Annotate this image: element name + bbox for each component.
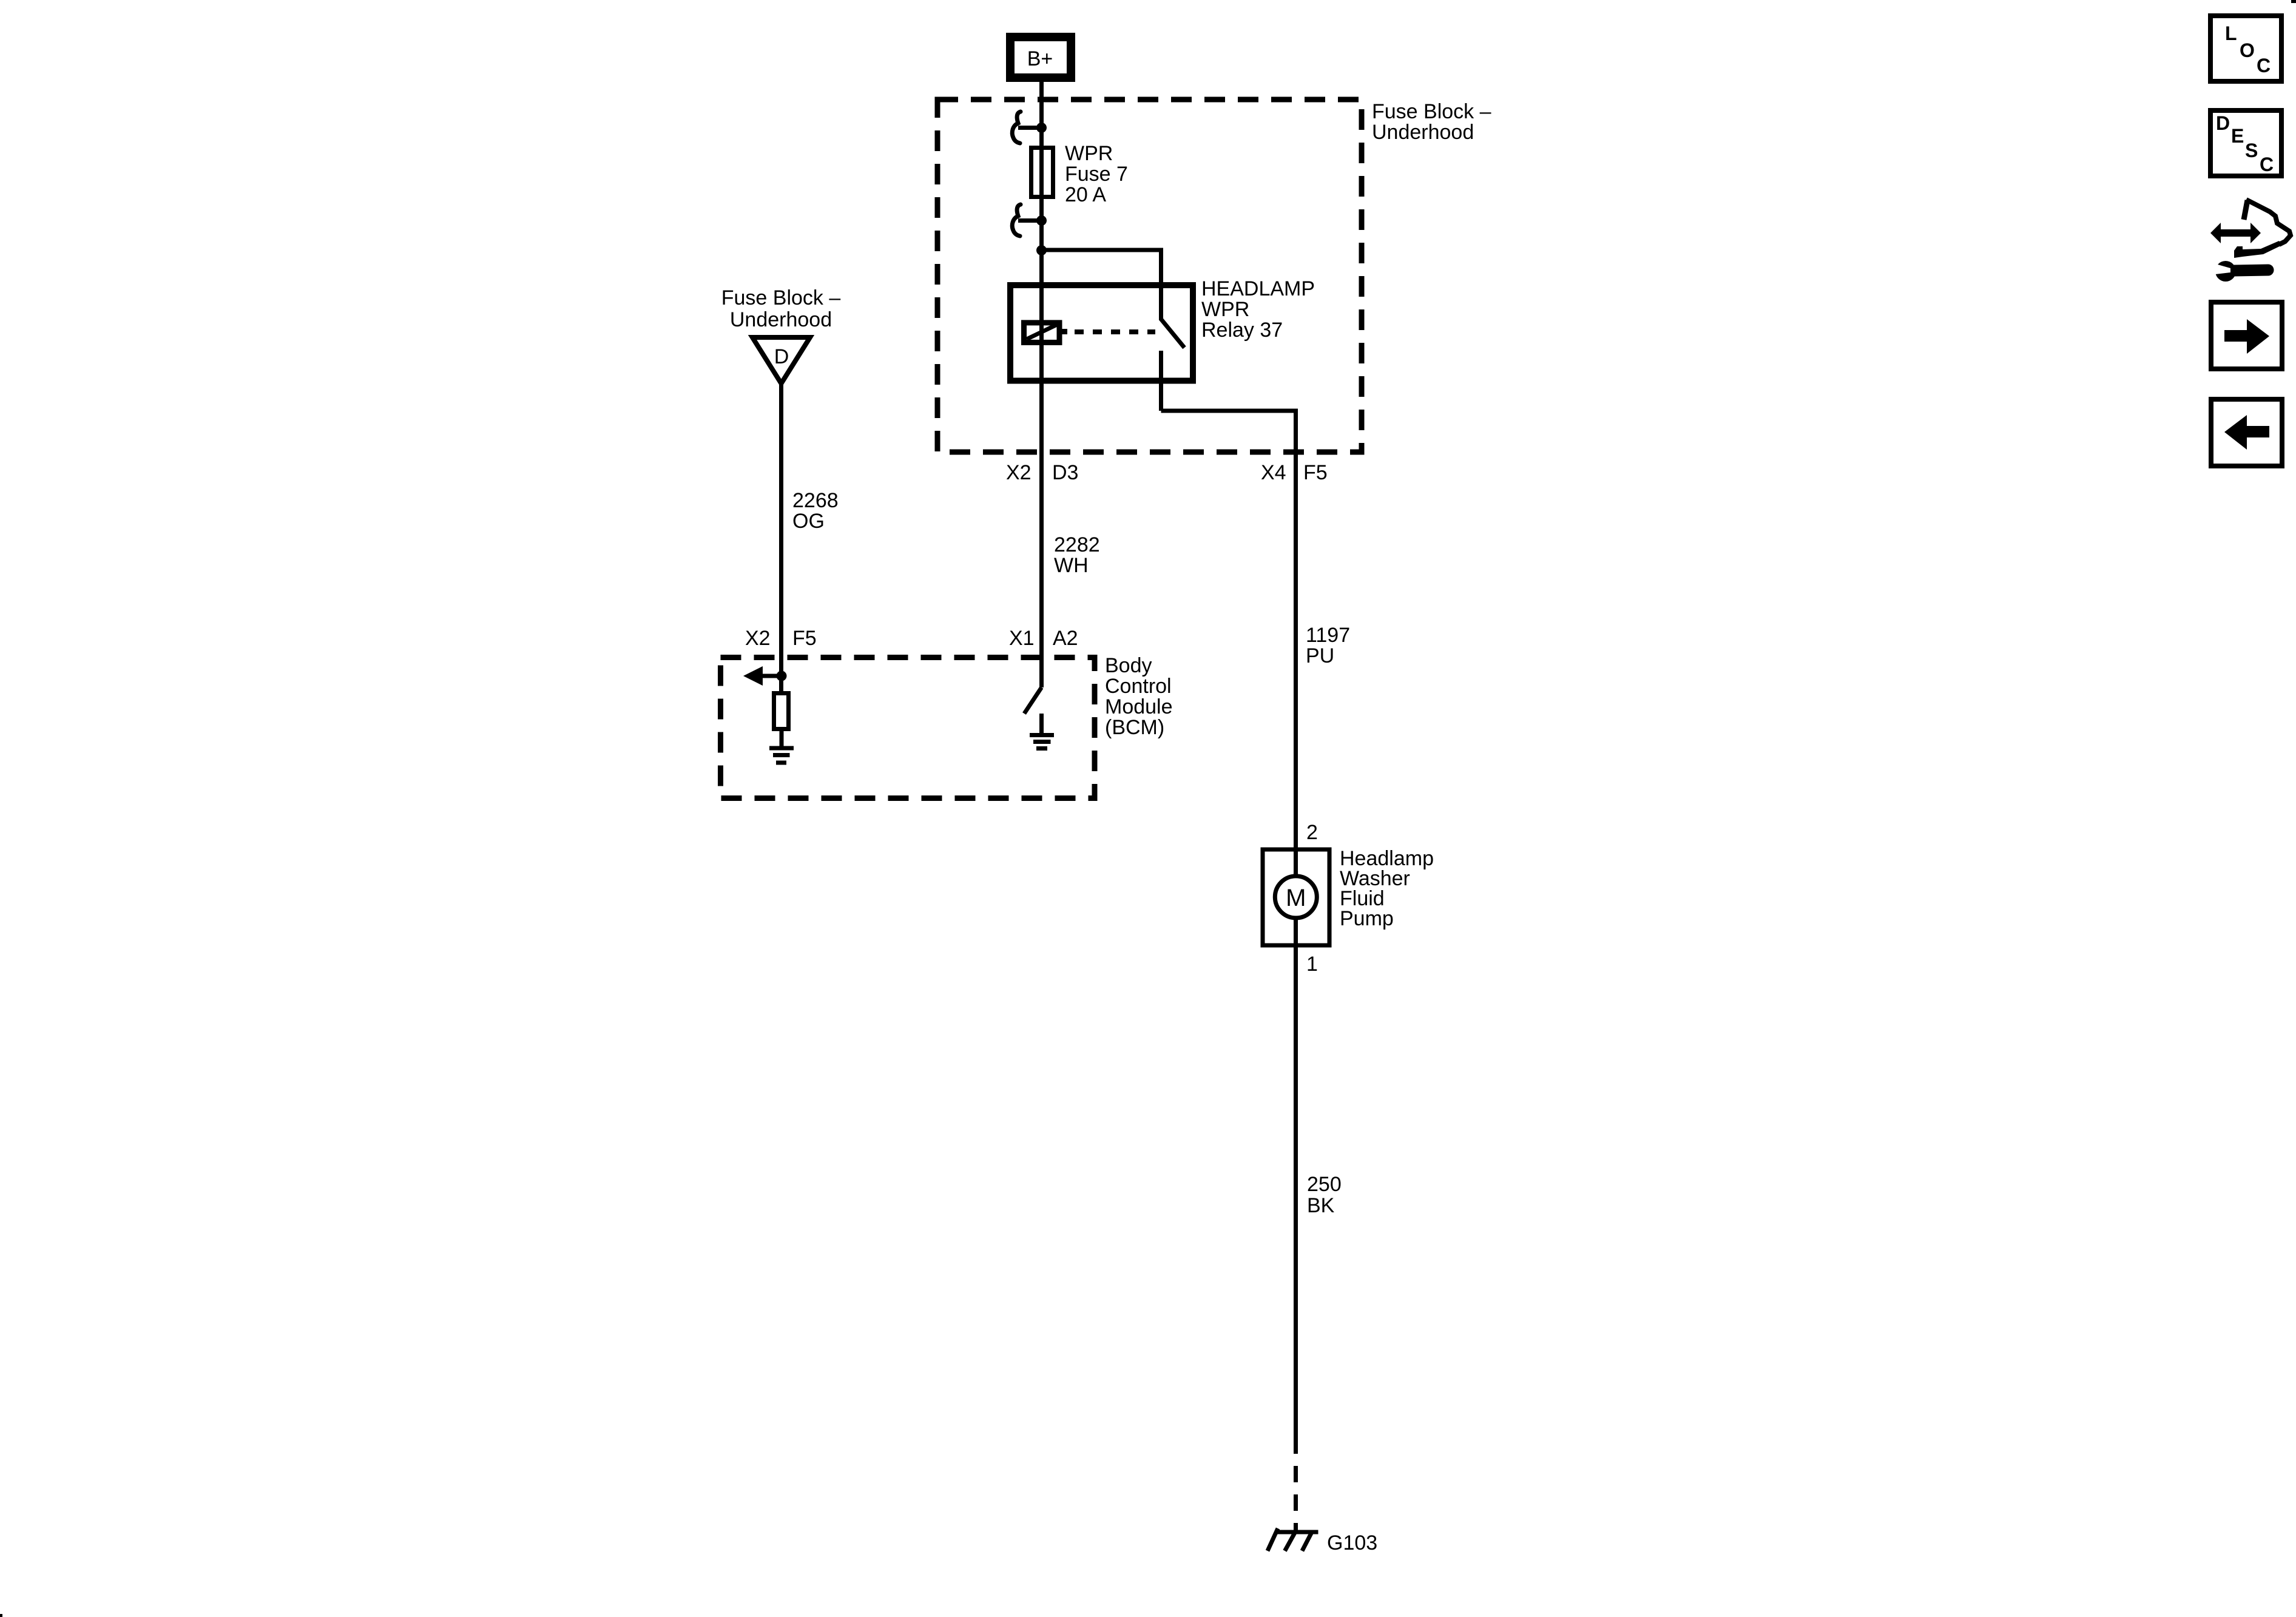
fuse block underhood label right <box>1372 100 1491 144</box>
fuse clip top <box>1012 112 1047 143</box>
relay switch blade <box>1161 319 1185 348</box>
relay actuation dashed line <box>1075 329 1155 334</box>
svg-text:(BCM): (BCM) <box>1105 716 1164 739</box>
svg-text:S: S <box>2245 140 2258 161</box>
ground BCM left <box>769 748 794 763</box>
wire relay output to X4 F5 <box>1161 411 1296 452</box>
pin 2 label <box>1306 821 1318 844</box>
wire 250 BK <box>1294 945 1298 1454</box>
svg-text:2282: 2282 <box>1054 533 1100 556</box>
svg-text:Pump: Pump <box>1340 907 1394 930</box>
svg-text:1197: 1197 <box>1306 624 1350 647</box>
signal arrow left inside BCM <box>743 666 783 686</box>
ground BCM right <box>1030 714 1054 749</box>
icon service info double arrow <box>2210 223 2261 243</box>
BCM label Body Control Module <box>1105 654 1173 739</box>
pump label Headlamp Washer Fluid Pump <box>1340 847 1434 930</box>
svg-text:WH: WH <box>1054 554 1089 577</box>
svg-text:250: 250 <box>1307 1173 1342 1196</box>
svg-text:OG: OG <box>792 510 825 533</box>
svg-text:F5: F5 <box>792 627 817 650</box>
connector label X1 A2 <box>1009 627 1078 650</box>
fuse block underhood label left <box>721 286 841 331</box>
svg-text:BK: BK <box>1307 1194 1335 1217</box>
svg-text:X4: X4 <box>1261 461 1286 484</box>
fuse block underhood dashed box <box>937 100 1362 452</box>
svg-text:WPR: WPR <box>1065 142 1113 165</box>
icon LOC button <box>2210 16 2281 81</box>
motor M headlamp washer fluid pump <box>1275 849 1317 945</box>
icon back arrow button <box>2211 399 2282 466</box>
svg-text:F5: F5 <box>1303 461 1328 484</box>
pin 1 label <box>1306 953 1318 976</box>
wire 2282 WH <box>1039 452 1044 687</box>
ground G103 symbol <box>1268 1528 1319 1551</box>
svg-text:Fuse 7: Fuse 7 <box>1065 163 1128 186</box>
grid reference triangle D <box>752 337 810 383</box>
svg-text:Fuse Block –: Fuse Block – <box>1372 100 1491 123</box>
connector label X2 F5 <box>745 627 817 650</box>
svg-text:Underhood: Underhood <box>1372 121 1474 144</box>
BCM dashed box <box>721 658 1095 798</box>
pump box <box>1263 849 1329 945</box>
wire resistor to ground <box>780 729 784 748</box>
icon DESC button <box>2210 110 2281 176</box>
wire 1197 PU <box>1294 452 1298 849</box>
wire junction to relay switch contact <box>1042 250 1161 320</box>
svg-text:Underhood: Underhood <box>730 308 832 331</box>
svg-text:B+: B+ <box>1027 47 1053 70</box>
relay coil <box>1024 323 1068 343</box>
wire label 2282 WH <box>1054 533 1100 577</box>
icon service wrench <box>2213 261 2268 282</box>
svg-text:20 A: 20 A <box>1065 183 1106 206</box>
corner mark bottom left <box>0 1614 2 1617</box>
svg-text:A2: A2 <box>1053 627 1078 650</box>
resistor inside BCM <box>774 694 789 729</box>
svg-text:O: O <box>2240 39 2255 61</box>
wire 2268 OG <box>779 382 783 691</box>
svg-text:2268: 2268 <box>792 489 839 512</box>
svg-text:PU: PU <box>1306 644 1334 667</box>
svg-text:WPR: WPR <box>1201 298 1249 321</box>
relay switch lower contact wire <box>1159 351 1163 411</box>
fuse WPR Fuse 7 20 A <box>1032 147 1053 199</box>
wire label 1197 PU <box>1306 624 1350 667</box>
relay label HEADLAMP WPR Relay 37 <box>1201 277 1315 342</box>
svg-text:Fuse Block –: Fuse Block – <box>721 286 841 309</box>
svg-text:L: L <box>2225 22 2237 44</box>
svg-text:C: C <box>2257 55 2271 76</box>
svg-text:Body: Body <box>1105 654 1152 677</box>
svg-text:E: E <box>2231 125 2244 147</box>
svg-text:X1: X1 <box>1009 627 1035 650</box>
dashed wire to ground G103 <box>1294 1466 1298 1532</box>
svg-text:D: D <box>2216 112 2230 134</box>
svg-text:G103: G103 <box>1327 1531 1377 1555</box>
wire label 250 BK <box>1307 1173 1342 1217</box>
svg-text:Relay 37: Relay 37 <box>1201 319 1283 342</box>
node junction dot BCM <box>777 671 787 681</box>
icon forward arrow button <box>2211 302 2282 369</box>
wire fuse to junction <box>1039 199 1044 251</box>
svg-text:D3: D3 <box>1052 461 1078 484</box>
wire B+ to fuse <box>1039 78 1044 147</box>
node junction dot <box>1036 245 1047 255</box>
wire coil feed through relay <box>1039 251 1044 452</box>
fuse value label WPR Fuse 7 20 A <box>1065 142 1128 206</box>
svg-text:Control: Control <box>1105 675 1172 698</box>
svg-text:D: D <box>774 345 789 368</box>
connector label X4 F5 <box>1261 461 1328 484</box>
fuse clip bottom <box>1012 204 1047 236</box>
svg-text:2: 2 <box>1306 821 1318 844</box>
svg-text:X2: X2 <box>1006 461 1032 484</box>
svg-text:C: C <box>2260 154 2274 175</box>
icon service info outline <box>2234 200 2291 258</box>
power node B+ <box>1010 37 1071 78</box>
relay U HEADLAMP WPR Relay 37 box <box>1010 285 1193 381</box>
BCM driver switch blade <box>1024 687 1042 714</box>
corner mark top right <box>2291 0 2296 3</box>
svg-text:M: M <box>1286 885 1306 911</box>
svg-text:1: 1 <box>1306 953 1318 976</box>
svg-text:Module: Module <box>1105 695 1173 718</box>
wire label 2268 OG <box>792 489 839 533</box>
connector label X2 D3 <box>1006 461 1078 484</box>
ground label G103 <box>1327 1531 1377 1555</box>
svg-text:X2: X2 <box>745 627 771 650</box>
svg-text:HEADLAMP: HEADLAMP <box>1201 277 1315 300</box>
